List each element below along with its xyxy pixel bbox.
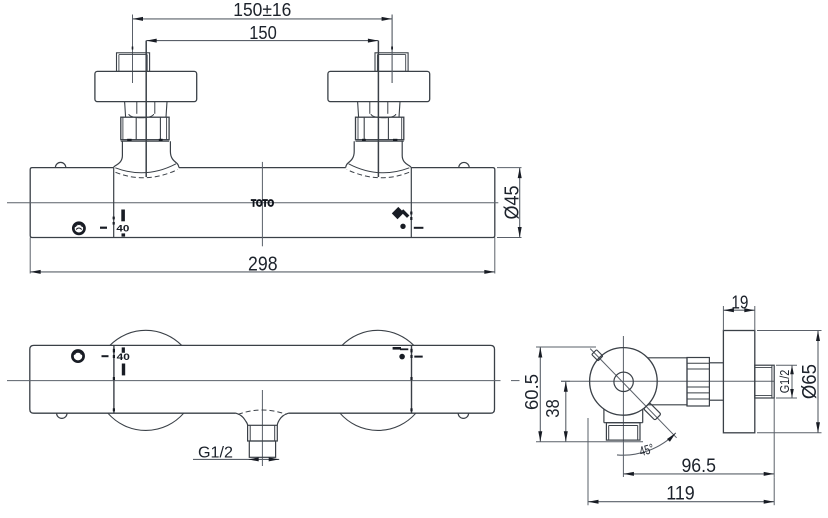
temperature indicator tab — [592, 350, 603, 361]
eccentric tube (side) — [709, 363, 723, 400]
left union wall-axis centerline / 150±16 extension — [132, 15, 134, 84]
inlet connector sleeve (side) — [648, 358, 687, 407]
plan right index dash — [414, 356, 422, 358]
wall escutcheon flange (side) — [723, 331, 754, 433]
svg-text:298: 298 — [248, 254, 278, 276]
svg-text:Ø45: Ø45 — [502, 186, 524, 220]
dimension 150 — [146, 22, 378, 43]
svg-text:38: 38 — [542, 399, 563, 418]
right index dash — [414, 227, 424, 229]
left union elbow into body — [113, 141, 178, 178]
right union elbow into body — [346, 141, 412, 178]
right union body intersection curve — [349, 164, 410, 173]
dimension G1/2 (wall nipple) — [776, 365, 797, 398]
svg-text:Ø65: Ø65 — [798, 364, 821, 399]
dimension 119 — [588, 418, 774, 505]
right end-cap joint line — [410, 168, 412, 238]
body horizontal centerline — [7, 202, 498, 204]
dimension G1/2 (plan outlet) — [193, 444, 279, 461]
left union valve-axis centerline / 150 extension — [145, 41, 147, 177]
dimension Ø45 — [497, 168, 524, 238]
plan safety button — [72, 351, 83, 362]
right union escutcheon flange — [328, 71, 430, 101]
plan view centerline — [7, 380, 520, 382]
indicator dot under shower icon — [401, 224, 405, 228]
plan indicator dot — [400, 354, 405, 359]
bar body (plan view) — [30, 345, 495, 413]
left union union nut — [121, 117, 169, 141]
svg-text:TOTO: TOTO — [251, 199, 274, 210]
inlet union nut (side) — [687, 358, 709, 407]
outlet threaded nipple (plan) — [248, 425, 278, 457]
side view vertical centerline — [622, 336, 624, 477]
left wall flange circle (plan) — [108, 330, 184, 430]
mixer body (front view) — [30, 168, 495, 238]
dimension Ø65 — [757, 331, 822, 433]
right wall flange circle (plan) — [340, 330, 416, 430]
cartridge spindle circle — [614, 372, 633, 391]
left index dash — [100, 227, 107, 229]
wall nipple G1/2 (side) — [755, 365, 774, 398]
plan left index dash — [102, 355, 109, 357]
dimension 150±16 — [133, 0, 393, 83]
plan 40-degree stop marking — [117, 347, 130, 375]
svg-text:150: 150 — [249, 22, 277, 43]
dimension 38 — [542, 381, 570, 441]
left union connecting tube — [125, 102, 167, 118]
right union valve-axis centerline / 150 extension — [377, 41, 379, 177]
right union wall-axis centerline / 150±16 extension — [391, 15, 393, 84]
outlet centerline (plan) — [261, 390, 263, 466]
plan shower icon — [393, 348, 409, 349]
safety button on left cap — [73, 223, 84, 234]
flow lever (edge-on) — [644, 403, 661, 420]
body end circle (Ø45) — [590, 348, 658, 416]
right inlet union assembly (mirrored) — [328, 15, 430, 178]
left union hidden intersection curve — [116, 170, 178, 178]
right cap top bump — [459, 162, 469, 167]
left end-cap joint line — [113, 168, 115, 238]
left inlet union assembly — [95, 15, 197, 178]
plan right cap joint — [411, 345, 413, 413]
dimension 60.5 — [521, 347, 643, 442]
svg-text:G1/2: G1/2 — [778, 370, 792, 394]
outlet hidden curve (plan) — [238, 410, 286, 414]
svg-text:119: 119 — [666, 482, 695, 504]
svg-text:150±16: 150±16 — [233, 0, 291, 20]
outlet chin (side) — [604, 409, 643, 423]
plan left cap joint — [113, 345, 115, 413]
dimension 298 — [30, 238, 495, 276]
right union wall connector square — [375, 53, 408, 72]
right union connecting tube — [358, 102, 400, 118]
svg-text:G1/2: G1/2 — [198, 444, 233, 461]
dimension 19 — [723, 292, 754, 331]
right union hidden intersection curve — [347, 170, 409, 178]
svg-text:60.5: 60.5 — [521, 374, 542, 410]
left cap top bump — [55, 162, 65, 167]
plan right bottom bump — [458, 413, 468, 418]
45-degree diagonal centerline — [590, 349, 676, 438]
45-degree arc with arrow — [617, 433, 676, 459]
left union wall connector square — [117, 53, 150, 72]
left union escutcheon flange — [95, 71, 197, 101]
right union union nut — [355, 117, 403, 141]
side view horizontal centerline — [561, 380, 774, 382]
svg-text:40: 40 — [117, 352, 130, 362]
40-degree stop marking (front) — [116, 210, 129, 237]
left union body intersection curve — [115, 164, 176, 173]
outlet nipple (side) — [606, 423, 640, 440]
outlet boss flare (plan) — [236, 410, 289, 425]
body vertical centerline — [261, 162, 263, 246]
svg-text:40: 40 — [116, 223, 129, 234]
plan left bottom bump — [57, 413, 67, 418]
svg-text:96.5: 96.5 — [681, 455, 716, 477]
svg-text:19: 19 — [731, 292, 748, 313]
shower icon on right side — [392, 207, 408, 219]
dimension 96.5 — [623, 398, 774, 477]
